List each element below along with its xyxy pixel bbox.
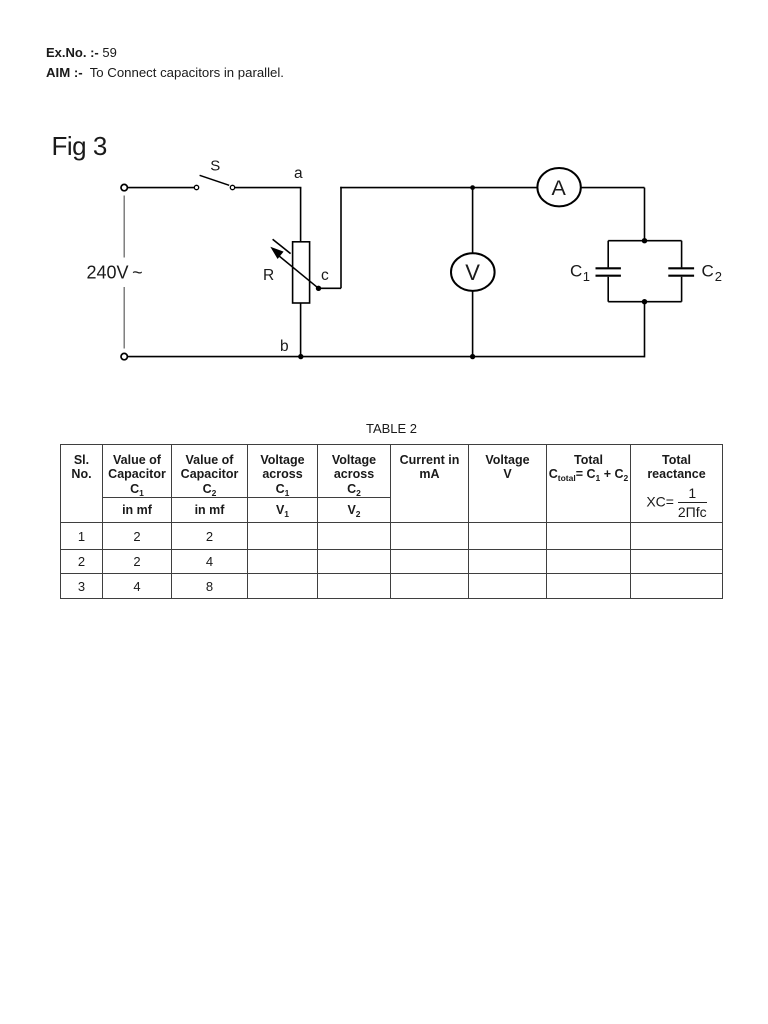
svg-text:S: S xyxy=(210,158,220,175)
bottom rail xyxy=(128,356,645,358)
wire junction down to voltmeter xyxy=(472,188,474,254)
C1 branch bottom lead xyxy=(607,277,609,302)
rheostat arrow shaft xyxy=(279,256,319,289)
svg-text:R: R xyxy=(263,267,274,284)
top rail riser to ammeter xyxy=(340,187,538,189)
switch S blade xyxy=(200,175,230,185)
wire terminal to switch xyxy=(128,187,195,189)
source lead lower (gray) xyxy=(123,287,125,349)
svg-text:240V ~: 240V ~ xyxy=(87,263,143,283)
wire a down to rheostat xyxy=(300,188,302,242)
capacitor C2 top plate xyxy=(668,267,694,269)
svg-text:C1: C1 xyxy=(570,262,590,285)
voltmeter V circle xyxy=(451,253,495,291)
capacitor C1 bottom plate xyxy=(596,275,621,277)
heading AIM xyxy=(46,65,284,80)
source lead upper (gray) xyxy=(123,196,125,258)
svg-text:C2: C2 xyxy=(702,262,723,285)
wire capacitor bank to bottom rail xyxy=(644,302,646,358)
node b (dot) xyxy=(298,354,303,359)
capacitor bank bottom node (dot) xyxy=(642,299,647,304)
wire corner down to capacitor bank xyxy=(644,188,646,241)
rheostat arrow head xyxy=(270,247,283,259)
capacitor C1 top plate xyxy=(596,267,621,269)
junction dot voltmeter top xyxy=(470,185,475,190)
terminal top-left xyxy=(121,184,127,190)
figure label Fig 3 xyxy=(52,131,107,162)
rheostat R body xyxy=(293,242,310,303)
heading Ex.No. :- 59 xyxy=(46,45,117,60)
rheostat arrow upper parallel stroke xyxy=(273,239,291,253)
data table TABLE 2 xyxy=(60,444,723,599)
riser wire up to top rail xyxy=(340,187,342,288)
svg-text:b: b xyxy=(280,338,289,355)
wire ammeter to corner xyxy=(581,187,645,189)
capacitor bank bottom wire xyxy=(608,301,681,303)
svg-text:V: V xyxy=(465,260,480,285)
svg-text:c: c xyxy=(321,267,329,284)
ammeter A circle xyxy=(537,168,580,206)
wiper node c (dot) xyxy=(316,286,321,291)
table title TABLE 2 xyxy=(61,421,722,436)
wire rheostat bottom to node b xyxy=(300,303,302,357)
switch S contact right xyxy=(230,185,234,189)
wire switch to node a xyxy=(235,187,302,189)
wire voltmeter to bottom rail xyxy=(472,291,474,357)
wire c to riser xyxy=(319,287,342,289)
C2 branch top lead xyxy=(681,241,683,268)
junction dot bottom rail xyxy=(470,354,475,359)
capacitor bank top wire xyxy=(608,240,681,242)
svg-text:A: A xyxy=(552,176,567,200)
capacitor bank top node (dot) xyxy=(642,238,647,243)
capacitor C2 bottom plate xyxy=(668,275,694,277)
C2 branch bottom lead xyxy=(681,277,683,302)
C1 branch top lead xyxy=(607,241,609,268)
svg-text:a: a xyxy=(294,165,303,182)
switch S contact left xyxy=(194,185,198,189)
terminal bottom-left xyxy=(121,353,127,359)
